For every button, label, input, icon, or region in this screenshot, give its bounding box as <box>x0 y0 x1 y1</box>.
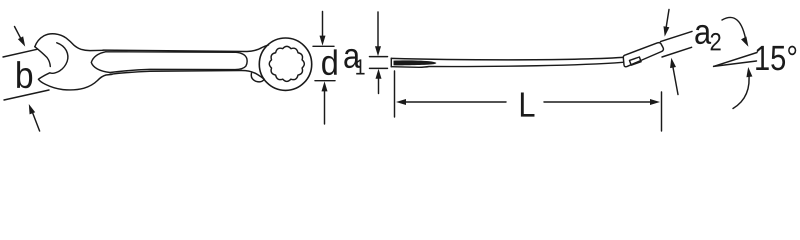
svg-text:2: 2 <box>709 28 721 56</box>
svg-text:15°: 15° <box>754 39 798 78</box>
svg-text:L: L <box>518 86 535 125</box>
svg-text:d: d <box>321 44 339 83</box>
svg-text:b: b <box>15 55 34 96</box>
svg-text:1: 1 <box>355 54 366 79</box>
